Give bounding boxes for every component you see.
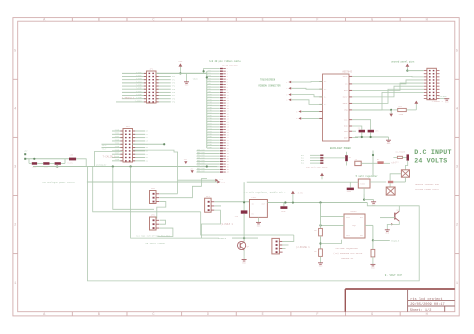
svg-text:D2: D2 [349, 156, 351, 159]
wire caps to ground [361, 132, 363, 137]
wire second analogue net [178, 179, 216, 181]
wire enable to transistor [232, 237, 258, 239]
svg-text:C-2: C-2 [220, 178, 223, 181]
JP7 wire pin2 stub [214, 205, 221, 207]
wire R11 wires [393, 109, 398, 111]
svg-text:DCLK: DCLK [343, 75, 349, 78]
svg-text:100n: 100n [347, 190, 352, 193]
wire U1 cap feed 2 [352, 120, 370, 130]
wire JP2 feed to vertical [133, 150, 178, 193]
svg-text:Sheet: 1/2: Sheet: 1/2 [410, 308, 432, 313]
svg-text:5 volt regulator: 5 volt regulator [356, 175, 379, 178]
svg-text:P30: P30 [209, 147, 212, 149]
wire rail jog right [367, 203, 399, 206]
svg-text:2: 2 [456, 224, 458, 228]
resistor R3 [55, 162, 61, 165]
wire analogue net [87, 181, 217, 183]
svg-text:3: 3 [456, 166, 458, 170]
junction dot R3 tap [56, 165, 58, 167]
wire base Q2 [380, 217, 395, 219]
ground right of JP4 [440, 98, 447, 100]
JP3 lower row wires with labels [197, 150, 220, 152]
wire 3.3 rail to U4 [320, 203, 322, 229]
wire vertical from bus dot 2 [131, 167, 219, 239]
resistor R8 input [397, 156, 402, 158]
svg-text:BUSY: BUSY [343, 96, 349, 99]
wire +5v feed [25, 158, 69, 160]
JP8 wire pin3 [282, 248, 286, 250]
analogue net arrow pin [217, 181, 220, 184]
JP8 wire pin1 up [282, 235, 294, 241]
staircase wires U1 to JP4 [352, 75, 424, 77]
diode D2 vertical [345, 155, 348, 161]
wire JP4 row1 [407, 70, 423, 72]
svg-text:JP5: JP5 [151, 187, 156, 190]
supply VCC arrow [179, 66, 181, 73]
svg-text:R7: R7 [377, 158, 379, 161]
resistor chain wires [29, 162, 32, 164]
svg-text:E: E [262, 19, 264, 23]
JP1 left wires [122, 72, 147, 74]
title block outline [344, 289, 346, 312]
svg-text:BL4: BL4 [301, 163, 304, 165]
svg-text:SET1: SET1 [346, 235, 350, 237]
svg-text:TSX9: TSX9 [115, 159, 119, 161]
supply pin marks [24, 153, 26, 155]
wire cap to enable [243, 214, 245, 238]
junction dot enable [243, 237, 245, 239]
svg-text:C3: C3 [146, 141, 148, 143]
connector JP3 40-pin ribbon pads [220, 68, 223, 69]
touchscreen connector pins [288, 81, 291, 84]
ground U3 [258, 217, 260, 222]
connector JP2 header [123, 129, 133, 163]
svg-text:G: G [371, 313, 373, 317]
svg-text:5: 5 [456, 49, 458, 53]
svg-text:TSX0: TSX0 [115, 129, 119, 131]
wire 7805 ground [363, 188, 365, 194]
svg-text:1: 1 [14, 282, 16, 286]
regulator U3 LD1117 [250, 200, 268, 218]
svg-text:JP-40 LCD-PIN: JP-40 LCD-PIN [222, 64, 238, 67]
svg-text:24 VOLTS: 24 VOLTS [414, 158, 447, 165]
wire to resistor R7 [361, 162, 377, 164]
svg-text:REMOVE JUMPERS FOR: REMOVE JUMPERS FOR [415, 183, 439, 186]
junction dots on bus [112, 165, 114, 167]
wire C3 to input [349, 182, 351, 187]
frame row ticks [13, 78, 18, 80]
junction dot R11 [390, 109, 392, 111]
resistor R4 [69, 158, 76, 161]
connector JP8 pulse output header [272, 238, 280, 254]
wire backlight mid [323, 157, 345, 159]
svg-text:2: 2 [14, 224, 16, 228]
resistor R2 [43, 162, 49, 165]
svg-text:OUT: OUT [360, 235, 363, 237]
JP8 wire pin2 [282, 244, 289, 246]
svg-text:unused panel pins: unused panel pins [391, 60, 415, 63]
wire collector Q2 up [398, 206, 400, 212]
capacitor C5 1uF [241, 210, 248, 213]
svg-text:MAX68: MAX68 [350, 210, 357, 213]
svg-text:VCC1: VCC1 [346, 217, 350, 219]
junction dot [179, 72, 181, 74]
svg-text:J-DC1: J-DC1 [393, 160, 400, 163]
svg-text:SEQ1: SEQ1 [352, 225, 356, 227]
wire U1 to R11 [352, 109, 391, 111]
wire vertical from bus dot 1 [113, 167, 154, 210]
svg-text:D: D [207, 19, 209, 23]
wire left vertical to bottom bus [88, 167, 420, 281]
connector JP7 pulse header [205, 198, 212, 212]
JP5 wire pin2 staircase [160, 179, 208, 198]
svg-text:+5v Analogue power source: +5v Analogue power source [42, 181, 76, 184]
svg-text:R-SEL: R-SEL [68, 163, 73, 165]
svg-text:LCD-GND: LCD-GND [439, 95, 448, 98]
svg-text:C0: C0 [146, 131, 148, 133]
svg-text:10uF: 10uF [281, 210, 286, 213]
svg-text:3: 3 [14, 166, 16, 170]
wire output to X1 [393, 181, 405, 183]
resistor R11 [398, 108, 407, 111]
wire 7805 output [370, 181, 386, 183]
svg-text:C1: C1 [146, 134, 148, 136]
jumper box X1 [401, 170, 409, 177]
svg-text:BACKLIGHT POWER: BACKLIGHT POWER [330, 147, 351, 150]
svg-text:IN: IN [252, 203, 254, 206]
svg-text:C: C [152, 313, 154, 317]
svg-text:ENABLE: ENABLE [391, 239, 400, 242]
supply arrow backlight [321, 176, 323, 179]
resistor R1 [32, 162, 37, 165]
JP1 right wires [156, 72, 207, 74]
JP5 wire pin3 loop [157, 202, 166, 219]
resistor R7 [377, 161, 383, 164]
svg-text:T-IN10: T-IN10 [135, 99, 143, 102]
junction dot feed [33, 158, 35, 160]
transistor Q1 [238, 241, 246, 249]
svg-text:DB8-LCD: DB8-LCD [197, 171, 205, 173]
svg-text:T-CALIB 1: T-CALIB 1 [103, 156, 116, 159]
svg-text:4: 4 [286, 100, 287, 102]
connector JP1 touchscreen header [147, 71, 157, 103]
wire +5v analogue bus [33, 166, 217, 168]
svg-text:EN: EN [252, 213, 254, 216]
svg-text:TSX1: TSX1 [115, 133, 119, 135]
ground Q2 [386, 227, 388, 230]
wire X1 left [390, 174, 401, 181]
JP2 left wires [112, 130, 123, 132]
svg-text:RIBBON CONNECTOR: RIBBON CONNECTOR [259, 84, 282, 87]
wire enable right [373, 239, 390, 241]
JP5 wire pin1 staircase [160, 193, 178, 195]
JP6 wire pin3 loop [158, 228, 173, 236]
svg-text:F: F [316, 313, 318, 317]
capacitor C1 [359, 130, 365, 133]
ground caps [388, 137, 390, 140]
JP3 row stub wires [207, 70, 220, 72]
svg-text:DOUT: DOUT [343, 102, 349, 105]
svg-text:DC-POWER: DC-POWER [396, 151, 406, 154]
junction dot bus [206, 76, 208, 78]
svg-text:C9: C9 [146, 160, 148, 162]
svg-text:3: 3 [286, 94, 287, 96]
svg-text:H: H [426, 19, 428, 23]
wire 7805 input rail [247, 181, 358, 183]
svg-text:1uF: 1uF [235, 215, 238, 218]
junction dot rail tap [243, 201, 245, 203]
JP4 pin stubs [424, 70, 427, 72]
svg-text:C2: C2 [146, 137, 148, 139]
svg-text:C: C [152, 19, 154, 23]
svg-text:1: 1 [286, 82, 287, 84]
svg-text:J-TOUCH 1: J-TOUCH 1 [122, 97, 135, 100]
svg-text:D.C INPUT: D.C INPUT [414, 149, 451, 156]
svg-text:Y-: Y- [324, 103, 326, 106]
svg-text:TSX7: TSX7 [115, 153, 119, 155]
svg-text:4: 4 [14, 108, 16, 112]
svg-text:TSX6: TSX6 [115, 149, 119, 151]
svg-text:ADS7843: ADS7843 [342, 71, 352, 74]
svg-text:29/05/2009 00:17: 29/05/2009 00:17 [410, 302, 445, 307]
svg-text:rts lcd project: rts lcd project [410, 297, 442, 302]
title block top bar [345, 288, 455, 290]
resistor R9 [388, 181, 393, 183]
supply arrow right [415, 104, 417, 110]
wire vertical bus to JP3 [206, 71, 208, 148]
connector backlight input pins [310, 154, 320, 156]
JP6 wire pin2 loop [160, 220, 166, 224]
svg-text:9. VOLT O/P: 9. VOLT O/P [385, 273, 403, 277]
ground GND1 [186, 73, 188, 81]
second net arrow pin [215, 179, 218, 182]
svg-text:TS-Y: TS-Y [102, 148, 108, 151]
wire U3 output rail [267, 202, 367, 204]
svg-text:TSX5: TSX5 [115, 146, 119, 148]
supply arrow to JP4 [406, 67, 408, 71]
wire enable junction up chain [243, 182, 245, 210]
svg-text:LD11: LD11 [252, 196, 258, 199]
svg-text:X-: X- [324, 96, 326, 99]
wire divider tap to U4 [321, 240, 342, 244]
wire Q1 emitter down [243, 249, 245, 256]
wire U1 cap feed 1 [352, 126, 362, 130]
svg-text:5: 5 [14, 49, 16, 53]
svg-text:analog+5v: analog+5v [96, 163, 107, 166]
resistor R10 [372, 240, 374, 249]
svg-text:VCC: VCC [178, 60, 183, 63]
svg-text:J-PANEL 1: J-PANEL 1 [432, 100, 444, 103]
wire top feed to JP3 pin1 [204, 69, 220, 74]
frame column ticks [71, 18, 73, 22]
svg-text:TSX3: TSX3 [115, 139, 119, 141]
svg-text:C5: C5 [146, 147, 148, 149]
transistor Q2 [394, 213, 396, 220]
svg-text:40: 40 [227, 172, 229, 174]
wire second vertical [93, 167, 201, 212]
wires U4 left pins [321, 215, 345, 217]
svg-text:1: 1 [456, 282, 458, 286]
JP7 wire pin3 loop [201, 210, 220, 238]
svg-text:FUTURE POWER INPUT: FUTURE POWER INPUT [415, 188, 439, 191]
svg-text:H: H [426, 313, 428, 317]
wire VCC net to bus [156, 72, 207, 74]
svg-text:(J-PULP 1: (J-PULP 1 [221, 223, 234, 226]
resistor R5 [319, 228, 323, 236]
wire U4 right out [365, 224, 373, 226]
svg-text:TSX2: TSX2 [115, 136, 119, 138]
JP2 right wires [133, 130, 146, 132]
svg-text:6: 6 [296, 118, 297, 120]
svg-text:lcd 40 pin ribbon cable: lcd 40 pin ribbon cable [209, 60, 241, 63]
arrow pin down [390, 110, 392, 114]
svg-text:TP9: TP9 [172, 100, 175, 103]
wire enable down [243, 238, 245, 242]
resistor R6 [319, 249, 323, 257]
svg-text:3.3 volt regulator, Enable O/P: 3.3 volt regulator, Enable O/P + [244, 191, 287, 194]
svg-text:D: D [207, 313, 209, 317]
capacitor C2 [368, 130, 374, 133]
dc input wires [393, 156, 397, 158]
JP7 wire pin1 [214, 201, 249, 203]
diode D1 input [407, 154, 410, 160]
jumper box X2 [386, 187, 395, 195]
junction dot JP3 tap [206, 165, 208, 167]
svg-text:7805: 7805 [360, 183, 366, 186]
svg-text:BEFORE 5V: BEFORE 5V [341, 257, 354, 260]
svg-text:JP2: JP2 [126, 125, 131, 128]
svg-text:JP1: JP1 [149, 68, 154, 71]
supply arrow 3.3v [292, 194, 294, 203]
svg-text:4: 4 [456, 108, 458, 112]
wire emitter to ground [387, 221, 399, 227]
capacitor C3 [347, 188, 354, 191]
inductor L1 [355, 161, 361, 165]
svg-text:VBUS: VBUS [193, 77, 199, 80]
svg-text:E: E [262, 313, 264, 317]
svg-text:JP6: JP6 [151, 214, 156, 217]
svg-text:5: 5 [296, 111, 297, 113]
ground below Q1 [243, 257, 245, 260]
connector JP5 option header [150, 191, 157, 204]
svg-text:(LM) ARRANGE BLD DRIVE: (LM) ARRANGE BLD DRIVE [333, 252, 363, 255]
capacitor C4 on rail [283, 203, 285, 207]
connector JP6 option header [150, 217, 157, 230]
wire R4 to bus [76, 159, 86, 167]
svg-text:G: G [371, 19, 373, 23]
svg-text:TOUCHSCREEN: TOUCHSCREEN [260, 79, 276, 82]
svg-text:ENABLE: ENABLE [218, 237, 227, 240]
ground divider [320, 256, 322, 262]
svg-text:C7: C7 [146, 154, 148, 156]
svg-text:P30 4P/N PCB INPUT: P30 4P/N PCB INPUT [306, 166, 328, 169]
touchscreen wires to U1 [291, 81, 322, 84]
svg-text:(J-PULSE 1: (J-PULSE 1 [296, 246, 310, 249]
wire vertical to y235 [201, 212, 294, 235]
svg-text:10n: 10n [375, 129, 378, 132]
op-amp U1 ADS7843 touch controller [323, 74, 350, 141]
svg-text:SLS MAX ILH OPTION FIX BUS: SLS MAX ILH OPTION FIX BUS [136, 235, 171, 238]
wire backlight vertical [372, 151, 374, 176]
wire R7 right [384, 162, 390, 164]
wire R9 down [389, 183, 391, 187]
svg-text:TSX4: TSX4 [115, 143, 119, 145]
svg-text:3.3v: 3.3v [298, 191, 304, 194]
junction dots on rail [284, 201, 286, 203]
title block dividers [407, 289, 409, 312]
op-amp U4 voltage sequencer [344, 214, 365, 238]
svg-text:VOLTAGE SEQUENCER: VOLTAGE SEQUENCER [335, 247, 358, 250]
wire R5 to R6 [320, 236, 322, 249]
junction dot top feed [203, 70, 205, 72]
ground 5v reg [373, 200, 375, 202]
connector JP4 panel header [427, 68, 437, 99]
svg-text:C8: C8 [146, 157, 148, 159]
svg-text:WT1: WT1 [360, 217, 363, 219]
svg-text:C6: C6 [146, 150, 148, 152]
regulator U2 7805 [358, 179, 370, 188]
JP2 right long wire [133, 143, 165, 145]
ground R10 [372, 257, 374, 265]
svg-text:F: F [316, 19, 318, 23]
svg-text:JP7: JP7 [206, 195, 211, 198]
svg-text:OE INPUT SIGNAL: OE INPUT SIGNAL [146, 242, 166, 245]
JP2 left loop wire [95, 151, 123, 166]
touchscreen pins 5 6 [298, 110, 301, 113]
wire down to junction [363, 194, 365, 200]
U1 lower stubs [352, 130, 356, 132]
svg-text:2: 2 [286, 88, 287, 90]
wire out down to enable [372, 225, 374, 240]
